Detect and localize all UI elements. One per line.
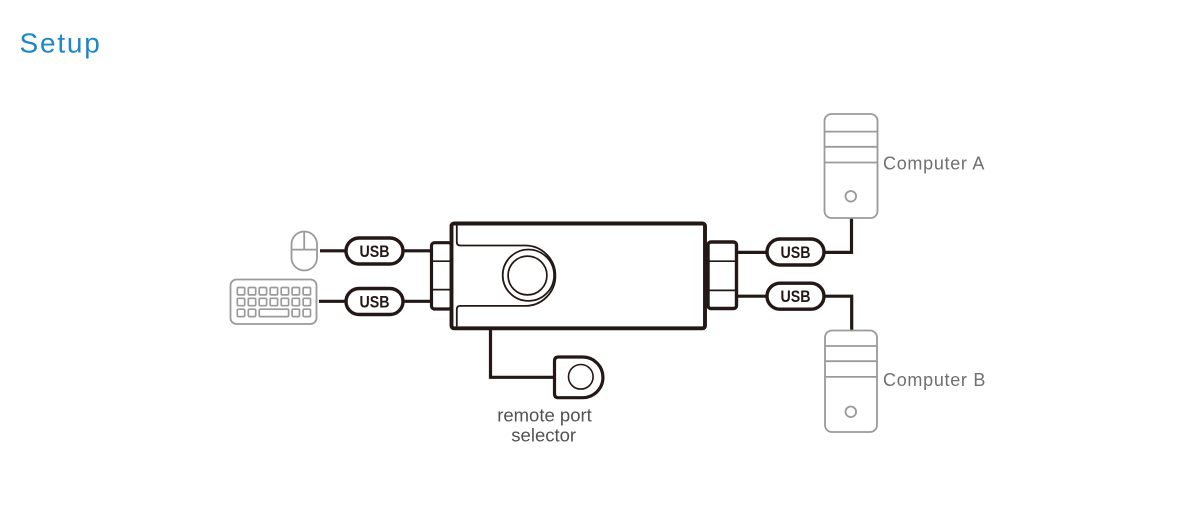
mouse icon — [292, 232, 318, 271]
wire KVM to remote port selector — [491, 329, 556, 377]
USB connector (mouse) — [346, 238, 403, 264]
svg-text:selector: selector — [511, 424, 576, 445]
port selection button — [503, 250, 554, 301]
wire KVM right port 2 to USB — [737, 295, 767, 298]
KVM right port block — [708, 242, 737, 309]
svg-text:Computer B: Computer B — [883, 370, 986, 390]
keyboard icon — [231, 280, 317, 325]
wire USB to KVM left port 2 — [403, 300, 432, 303]
KVM inner panel line — [457, 225, 556, 326]
wire keyboard to USB connector — [319, 300, 346, 303]
wire mouse to USB connector — [320, 249, 346, 252]
svg-text:USB: USB — [360, 243, 390, 261]
wire USB to Computer A — [824, 217, 852, 252]
USB connector (Computer B) — [767, 283, 824, 309]
KVM left port block — [432, 243, 452, 309]
svg-text:USB: USB — [360, 293, 390, 311]
svg-text:USB: USB — [781, 288, 811, 306]
title "Setup" — [20, 28, 102, 59]
svg-text:USB: USB — [781, 244, 811, 262]
USB connector (Computer A) — [767, 239, 824, 265]
remote port selector body — [555, 357, 603, 398]
USB connector (keyboard) — [346, 289, 403, 315]
computer B tower — [825, 331, 877, 433]
svg-text:remote port: remote port — [497, 404, 592, 425]
wire USB to KVM left port 1 — [403, 249, 432, 252]
computer A tower — [825, 114, 878, 218]
svg-text:Computer A: Computer A — [883, 154, 985, 174]
svg-text:Setup: Setup — [20, 28, 102, 59]
wire USB to Computer B — [824, 296, 852, 331]
KVM switch body — [452, 224, 706, 329]
remote port selector button — [569, 365, 594, 390]
wire KVM right port 1 to USB — [737, 251, 767, 254]
label remote port selector — [497, 404, 592, 445]
